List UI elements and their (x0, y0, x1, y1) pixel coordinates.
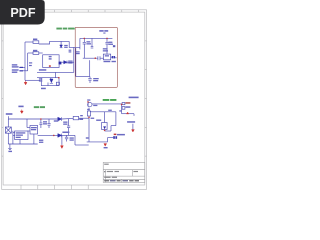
designator R2 (80, 115, 83, 116)
designator R3 (87, 109, 90, 110)
power arrow PE (24, 80, 27, 85)
value label Q1 (93, 105, 97, 106)
capacitor C7 (67, 125, 70, 127)
capacitor C7 top lead (68, 119, 70, 126)
net label GND2 (104, 147, 108, 148)
capacitor C10 (88, 78, 91, 80)
title block text (104, 164, 139, 182)
wire Q1 collector to divider (92, 103, 122, 105)
wire R3 to ground rail (88, 116, 90, 142)
capacitor C3 bottom lead (106, 44, 108, 54)
value label R2 (79, 119, 83, 120)
ground symbol (8, 147, 12, 149)
wire AC rail lower (9, 118, 58, 120)
component K1 (56, 82, 59, 85)
value label D4 (54, 120, 59, 121)
capacitor C4 lead (47, 83, 49, 86)
wire X3 feed (108, 137, 114, 139)
wire earth rail (25, 79, 40, 81)
capacitor C11 (113, 45, 115, 47)
wire C9 to IC2 (100, 57, 104, 59)
net label output lower (62, 132, 69, 134)
resistor R2 (73, 116, 78, 119)
wire drop to snubber (54, 72, 56, 77)
group box rectifier/regulator section (75, 27, 117, 87)
capacitor C1 bottom lead (83, 44, 85, 58)
connector X2 name label (104, 61, 116, 62)
wire LED anode (104, 112, 106, 123)
junction node C1 (84, 38, 86, 40)
wire to regulator IC2 (83, 57, 98, 59)
wire IC4 to ground rail (33, 134, 35, 144)
transformer T1 polarity dot (49, 65, 51, 67)
wire bottom rail under T1 (37, 71, 74, 73)
wire right drop (115, 112, 117, 126)
capacitor C10 top lead (89, 77, 91, 79)
net label GND1 (41, 88, 46, 90)
wire ground rail lower (87, 141, 108, 143)
wire D2 output (67, 61, 74, 63)
PDF badge (0, 0, 45, 25)
value label F1 (33, 39, 37, 41)
ground symbol lead (9, 144, 11, 148)
resistor R1 lead (50, 78, 52, 79)
wire B1 to ground rail (7, 133, 9, 144)
ic IC4 (30, 126, 38, 135)
wire divider column (121, 104, 123, 114)
transformer T1 winding mark (59, 62, 62, 65)
wire output rail lower (38, 134, 58, 136)
junction node under T1 (58, 77, 60, 79)
value label secondary net (69, 50, 72, 53)
value label T1 (49, 56, 52, 60)
label inside IC4 (31, 127, 37, 130)
ground arrow mid (61, 145, 64, 149)
IC3 pin 1 stub (13, 132, 15, 134)
wire AC stub (8, 116, 10, 119)
connector X1 pads (20, 67, 24, 72)
transformer T1 (43, 55, 59, 68)
wire IC3 feed (12, 131, 14, 144)
wire jog vertical (110, 126, 112, 131)
wire DC bus rail (80, 37, 113, 39)
capacitor C10 bottom lead (89, 80, 91, 83)
connector X3 name label (117, 134, 125, 136)
value label rectifier input (76, 51, 80, 54)
value label R3 (91, 118, 95, 119)
svg-text:PDF: PDF (10, 6, 35, 20)
wire net N (27, 53, 29, 71)
capacitor C3 (105, 41, 108, 43)
wire return right leg (89, 60, 91, 76)
wire output corner (74, 135, 76, 145)
capacitor C7 bottom lead (68, 128, 70, 136)
wire to fuse F2 (28, 52, 34, 54)
wire IC2 output (110, 56, 113, 58)
wire Q1 emitter (88, 108, 90, 111)
capacitor C1 (83, 41, 86, 43)
wire R2 to node (79, 117, 89, 119)
value label F2 (33, 50, 37, 52)
ic IC3 (15, 131, 28, 140)
wire primary to rectifier input (69, 41, 80, 47)
wire rectifier input riser (79, 38, 81, 49)
connector X1 pin 1 (19, 66, 25, 68)
value label C8 (70, 137, 74, 140)
designator Q1 (87, 99, 90, 100)
net label +V out (114, 134, 117, 136)
IC4 pin 2 stub (28, 130, 31, 132)
capacitor C5 (39, 122, 42, 124)
value label R6 lead (119, 110, 122, 111)
net label DC-BUS (99, 30, 108, 33)
section title lower left (34, 106, 45, 108)
LED1 triangle (103, 126, 106, 129)
wire node row (37, 77, 59, 79)
connector X1 pin 2 (19, 70, 27, 72)
wire to bridge B1 (7, 119, 9, 127)
IC3 pin 2 stub (13, 134, 15, 136)
wire output rail (122, 113, 134, 115)
net label 0V (86, 137, 89, 138)
wire net L (24, 42, 26, 80)
wire return bottom (76, 76, 90, 78)
value label C5 (43, 121, 47, 124)
value label IC2 (103, 48, 108, 51)
connector X2 pads (112, 56, 115, 58)
wire to ground arrow lower (61, 135, 63, 145)
capacitor C2 (91, 46, 94, 48)
bridge rectifier B1 (5, 127, 11, 133)
wire secondary vertical (73, 47, 75, 72)
LED1 body (102, 123, 108, 130)
junction node LED1 (104, 130, 106, 132)
connector X3 pads (113, 136, 117, 139)
net label AC-IN (6, 113, 13, 115)
resistor R6 (122, 107, 125, 110)
fuse F2 (33, 52, 39, 55)
pin numbers X1 (29, 62, 32, 66)
wire T1 to D2 (61, 61, 63, 63)
junction node C5 (40, 118, 42, 120)
fuse F1 (33, 41, 39, 44)
title block (103, 162, 145, 182)
wire lower return (41, 85, 59, 87)
value label R4 (108, 110, 112, 111)
power arrow +V (126, 112, 129, 114)
resistor R5 (122, 103, 125, 105)
value label C3 (108, 42, 113, 45)
wire to IC4 pin (26, 119, 28, 128)
value label C1 (86, 41, 91, 44)
diode D3 (50, 79, 53, 83)
value label C7 (63, 122, 67, 125)
wire fuse F2 to transformer T1 (39, 52, 43, 54)
net label GND3 (8, 151, 12, 152)
wire to ground arrow (132, 124, 134, 130)
wire X3 drop (107, 138, 109, 142)
net label output (127, 121, 135, 123)
capacitor C3 top lead (106, 38, 108, 42)
diode D4 (58, 117, 62, 121)
regulator IC2 (103, 54, 110, 60)
junction node divider (121, 104, 123, 106)
diode D5 (58, 134, 62, 138)
junction node Q1 base (87, 101, 89, 103)
capacitor C6 top lead (48, 119, 50, 123)
designator R5 (125, 102, 130, 104)
net label B+ (39, 69, 46, 71)
wire D4 output (62, 117, 73, 120)
wire D5 output (62, 134, 75, 136)
wire fuse F1 to transformer T1 (39, 41, 69, 44)
capacitor C1 top lead (83, 38, 85, 42)
wire X2 stub (115, 57, 116, 59)
wire to fuse F1 (25, 41, 33, 43)
section title TRANSFORMER (56, 28, 74, 30)
wire left leg (40, 78, 42, 86)
connector X1 name labels (12, 64, 19, 73)
value label R5 (125, 106, 130, 108)
capacitor C9 series (97, 56, 99, 60)
capacitor C5 bottom lead (40, 125, 42, 128)
designator LED1 (96, 120, 101, 121)
wire ground rail left (8, 143, 37, 145)
value label D1 (64, 45, 68, 48)
junction node D5 (53, 135, 55, 137)
junction node R3 (88, 117, 90, 119)
transistor Q1 (88, 102, 92, 106)
junction node regulator input (95, 57, 97, 59)
capacitor C8 top lead (66, 135, 68, 137)
value label D2 (68, 61, 72, 64)
wire LED feed (90, 111, 116, 113)
wire output stub (133, 114, 135, 116)
wire to LED cathode (105, 130, 111, 132)
capacitor C5 top lead (40, 119, 42, 123)
wire jog horizontal (111, 125, 116, 127)
resistor R3 (87, 111, 90, 116)
diode D2 (64, 61, 67, 64)
label inside IC2 (105, 55, 109, 56)
value label C10 (93, 78, 99, 81)
net label top right (129, 97, 139, 99)
diode D1 (60, 45, 63, 48)
net label lower-left (18, 106, 23, 108)
capacitor C8 (65, 136, 68, 138)
wire right leg (58, 78, 60, 86)
ground arrow right (132, 130, 135, 132)
label inside IC3 (16, 132, 26, 138)
wire return left leg (75, 48, 77, 76)
IC3 bottom pin (19, 140, 21, 145)
capacitor C6 bottom lead (48, 125, 50, 128)
capacitor C6 (47, 123, 50, 125)
capacitor C2 branch (91, 38, 93, 46)
junction node C3 (106, 38, 108, 40)
section title VOLTAGE ADJUST (103, 99, 117, 101)
capacitor C8 bottom lead (66, 139, 68, 142)
ground arrow lower (104, 144, 107, 147)
value label D3 (39, 78, 42, 81)
wire stub to diode D1 (60, 41, 62, 45)
wire LED bottom lead (104, 130, 106, 132)
value label IC3 (39, 140, 43, 143)
power arrow upper lower-left (20, 110, 23, 114)
